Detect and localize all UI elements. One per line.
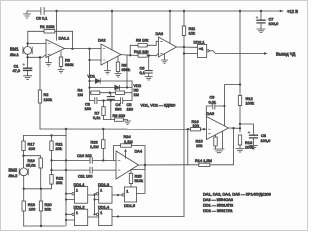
node rail-left block <box>65 128 67 130</box>
resistor R8 10k <box>130 38 158 56</box>
svg-text:VD1, VD2 — КД520: VD1, VD2 — КД520 <box>141 102 177 107</box>
svg-text:DA3: DA3 <box>156 31 164 36</box>
svg-text:/Вх.2: /Вх.2 <box>9 173 18 178</box>
node rect row3 center <box>109 92 111 94</box>
wire DA3 output to DD2.1 <box>177 46 198 48</box>
svg-text:1: 1 <box>76 211 78 215</box>
svg-text:1: 1 <box>100 211 102 215</box>
wire rectifier node to DA2 lower input <box>88 49 101 101</box>
svg-text:0,01: 0,01 <box>209 99 217 104</box>
wire C2R1 vertical to DA1.1 power <box>56 11 58 40</box>
wire DD2.1 output to Vyhod <box>209 51 295 57</box>
node C10 row gates riser <box>65 159 67 161</box>
node mic2 bottom row <box>23 188 25 190</box>
resistor R1 220k <box>28 24 73 33</box>
svg-text:0,1к: 0,1к <box>93 115 100 120</box>
wire R11 node down long vertical <box>183 47 185 217</box>
node rail-R23 <box>102 128 104 130</box>
resistor R15 10k to ground <box>196 132 225 153</box>
wire DA3 power from rail <box>169 11 171 43</box>
wire gates left riser <box>65 136 67 227</box>
node divider mid <box>239 123 241 125</box>
node DA2out-R8 <box>129 54 131 56</box>
resistor R13 100k to ground <box>236 135 253 152</box>
svg-text:/Вх.1: /Вх.1 <box>10 52 19 57</box>
resistor R16 100 <box>188 119 207 131</box>
node mic to R2 <box>39 56 41 58</box>
wire +12 column <box>239 11 241 96</box>
resistor R19 15,0k <box>24 156 43 189</box>
svg-text:100: 100 <box>29 146 36 151</box>
wire DA5 power from +12 column <box>223 83 241 125</box>
svg-text:1: 1 <box>76 189 78 193</box>
power arrow DA4 <box>124 149 127 159</box>
node output-rectifier tap <box>88 48 90 50</box>
svg-text:1,1М: 1,1М <box>124 139 133 144</box>
wire +12V top rail <box>27 10 267 12</box>
node C11 row gates riser <box>65 169 67 171</box>
node C-row R7 tap <box>102 99 104 101</box>
ground stub under DA2 <box>105 62 111 74</box>
resistor R17 100 <box>22 136 36 156</box>
wire hysteresis node down <box>187 129 189 165</box>
resistor R10 10k <box>130 49 158 57</box>
svg-text:DD1 — К561ЛП2: DD1 — К561ЛП2 <box>203 203 233 208</box>
svg-text:510k: 510k <box>135 178 143 183</box>
gate DD1.4 <box>93 205 112 226</box>
svg-text:47,0: 47,0 <box>13 68 21 73</box>
op-amp DA5 <box>207 111 229 140</box>
wire mic node to DA1.1 noninverting input <box>28 55 46 58</box>
svg-text:DD2.1: DD2.1 <box>194 40 205 45</box>
wire DA2 power from rail <box>111 11 113 50</box>
node riser b2 in2 <box>65 219 67 221</box>
node rail-R12 column <box>239 10 241 12</box>
resistor R7 0,1k <box>93 101 111 120</box>
resistor R9 300 to ground <box>111 113 131 125</box>
node mic bottom <box>26 56 28 58</box>
node rect row2 left <box>88 87 90 89</box>
gate DD2.2 inverter <box>122 187 137 208</box>
capacitor C10 100 <box>52 153 117 163</box>
capacitor C2 0,1 <box>36 8 47 21</box>
node rail-R11 <box>183 10 185 12</box>
resistor R22 20k <box>50 160 63 185</box>
op-amp DA3 comparator <box>156 31 177 57</box>
node rail-R16 <box>187 128 189 130</box>
svg-text:180: 180 <box>85 106 92 111</box>
ground top-left <box>24 11 31 18</box>
gate DD1.3 <box>93 182 112 203</box>
svg-text:15,0к: 15,0к <box>26 162 36 167</box>
gate DD1.2 <box>66 205 88 226</box>
svg-text:+12 В: +12 В <box>287 9 298 14</box>
svg-text:20k: 20k <box>56 146 62 151</box>
wire DA2 output <box>121 54 130 57</box>
op-amp DA2 <box>98 38 121 66</box>
capacitor C3 180 <box>85 98 104 111</box>
resistor R23 1,1M <box>90 129 105 160</box>
wire mic to DA1.1 inverting input <box>28 43 46 45</box>
op-amp DA4 <box>116 149 143 180</box>
svg-text:680k: 680k <box>122 67 130 72</box>
gate DD2.1 XOR <box>194 40 210 58</box>
svg-text:10k: 10k <box>189 30 195 35</box>
note VD1 VD2 type <box>141 102 177 107</box>
svg-text:DA1.1: DA1.1 <box>59 36 70 41</box>
node DD2.1 lower input <box>183 52 185 54</box>
svg-text:VD1: VD1 <box>88 74 96 79</box>
svg-text:100,0: 100,0 <box>269 21 280 26</box>
svg-text:DD1.3: DD1.3 <box>98 182 109 187</box>
node DA4out-R24-R25 <box>144 164 146 166</box>
node row-R20 <box>40 188 42 190</box>
node riser b2 in1 <box>65 213 67 215</box>
wire DA4 output <box>139 164 188 166</box>
wire b1out riser <box>94 195 96 214</box>
node DA3out-R11 <box>183 46 185 48</box>
capacitor C4 560 <box>107 93 122 120</box>
svg-text:R14 1,5М: R14 1,5М <box>195 158 212 163</box>
resistor R11 10k from rail <box>182 11 195 47</box>
diode VD1 <box>88 74 133 84</box>
wire R1 right to DA1.1 output <box>71 31 73 49</box>
wire b4 output long line <box>112 215 184 217</box>
resistor R2 130k <box>38 57 52 129</box>
node riser b1 in1 <box>65 193 67 195</box>
svg-text:R1 220k: R1 220k <box>40 24 55 29</box>
wire mid rail from R2 to DA5 <box>40 128 188 130</box>
svg-text:1М: 1М <box>78 92 83 97</box>
svg-text:C10 100: C10 100 <box>77 153 93 158</box>
svg-text:=1: =1 <box>199 46 203 51</box>
svg-text:DD1.1: DD1.1 <box>74 182 85 187</box>
svg-text:1М: 1М <box>134 92 139 97</box>
capacitor C5 180 <box>104 98 134 112</box>
svg-text:1,1М: 1,1М <box>90 144 99 149</box>
resistor R21 20k <box>50 136 63 161</box>
svg-text:1: 1 <box>100 189 102 193</box>
left block top rail <box>24 135 67 137</box>
node DA5out column <box>239 127 241 129</box>
diode VD2 <box>90 83 142 90</box>
svg-text:180: 180 <box>127 107 134 112</box>
node rail-C7 <box>260 10 262 12</box>
wire R1 left to input node <box>27 31 29 43</box>
resistor R6 680k under DA2 <box>115 56 130 77</box>
svg-text:20k: 20k <box>45 206 51 211</box>
wire b1 output <box>88 194 96 196</box>
svg-text:100: 100 <box>193 123 200 128</box>
node DA5out-R14 <box>232 127 234 129</box>
svg-text:560: 560 <box>115 107 122 112</box>
svg-text:DA5: DA5 <box>207 111 215 116</box>
resistor R5 1M <box>116 87 139 97</box>
wire left block riser <box>65 129 67 136</box>
ground under DA1.1 noninverting network <box>46 56 52 66</box>
capacitor C6 0,1 to ground <box>140 56 153 81</box>
svg-text:DA3 — К554СА3: DA3 — К554СА3 <box>203 197 233 202</box>
node rect row1 left <box>88 80 90 82</box>
resistor R14 1,5M <box>188 128 234 166</box>
wire b3 output <box>112 194 124 196</box>
wire to DD2.1 lower input <box>184 53 198 55</box>
svg-text:10k: 10k <box>196 143 202 148</box>
svg-text:1: 1 <box>126 188 128 193</box>
resistor R18 100 <box>22 189 36 226</box>
node rail-C2R1 <box>55 10 57 12</box>
svg-text:DA2: DA2 <box>98 38 106 43</box>
svg-text:100,0: 100,0 <box>261 138 272 143</box>
node C11 row left <box>50 169 52 171</box>
op-amp DA1.1 <box>46 36 69 58</box>
node rail-DA3 power <box>169 10 171 12</box>
ground stub under DA3 <box>162 54 168 64</box>
node C10 row R23 <box>102 159 104 161</box>
resistor R3 680k to ground <box>58 52 73 74</box>
svg-text:DA1, DA2, DA4, DA5 — КР140УД12: DA1, DA2, DA4, DA5 — КР140УД1208 <box>203 192 271 197</box>
parts list <box>203 192 271 214</box>
wire b5 output riser to DA4out <box>137 165 145 193</box>
node rail-DA2 power <box>111 10 113 12</box>
node output-R1 <box>71 48 73 50</box>
wire DA5 output <box>229 127 241 129</box>
svg-text:C2 0,1: C2 0,1 <box>36 16 47 21</box>
svg-text:130k: 130k <box>44 97 52 102</box>
wire b2 output to b4 <box>88 216 99 218</box>
capacitor C8 100,0 electrolytic <box>240 124 271 149</box>
resistor R4 1M <box>78 87 116 97</box>
+12 V supply terminal <box>267 9 298 14</box>
wire DA1.1 output to DA2 <box>65 48 102 50</box>
svg-text:R8 10k: R8 10k <box>136 38 148 43</box>
svg-text:DD1.2: DD1.2 <box>74 205 85 210</box>
wire mic2 row <box>24 184 52 189</box>
wire rectifier right vertical <box>131 81 133 101</box>
capacitor C11 100 <box>52 167 117 179</box>
node R17 bottom <box>22 155 24 157</box>
svg-text:DD1.5: DD1.5 <box>124 203 135 208</box>
resistor R25 510k <box>129 165 145 187</box>
gate DD1.1 <box>66 182 88 203</box>
svg-text:DD1.4: DD1.4 <box>98 205 110 210</box>
svg-text:DA4: DA4 <box>135 149 143 154</box>
svg-text:R9 300: R9 300 <box>113 113 126 118</box>
svg-text:20k: 20k <box>56 180 62 185</box>
svg-text:DD2 — К561ТЛ1: DD2 — К561ТЛ1 <box>203 208 233 213</box>
capacitor C7 100,0 electrolytic <box>256 11 279 33</box>
node R21 bottom C10 row <box>50 159 52 161</box>
microphone BM1 input <box>10 44 32 58</box>
microphone BM2 input <box>9 156 29 189</box>
svg-text:680k: 680k <box>65 62 73 67</box>
node riser b1 in2 <box>65 198 67 200</box>
node mic top / feedback <box>27 42 29 44</box>
svg-text:100: 100 <box>29 206 36 211</box>
svg-text:0,1: 0,1 <box>140 70 145 75</box>
resistor R24 1,1M feedback <box>114 134 146 165</box>
resistor R20 20k <box>39 189 52 226</box>
bottom rail left <box>24 225 65 227</box>
capacitor C1 47,0 electrolytic <box>13 57 32 79</box>
svg-text:R10 10k: R10 10k <box>134 49 149 54</box>
capacitor C9 0,01 <box>206 95 224 117</box>
resistor R12 100k <box>238 96 254 133</box>
svg-text:100k: 100k <box>246 100 254 105</box>
svg-text:C11 100: C11 100 <box>78 174 93 179</box>
svg-text:Выход ЧД: Выход ЧД <box>276 52 295 57</box>
node top rail R21 <box>50 134 52 136</box>
wire DA2 output down to rectifier <box>126 55 128 89</box>
